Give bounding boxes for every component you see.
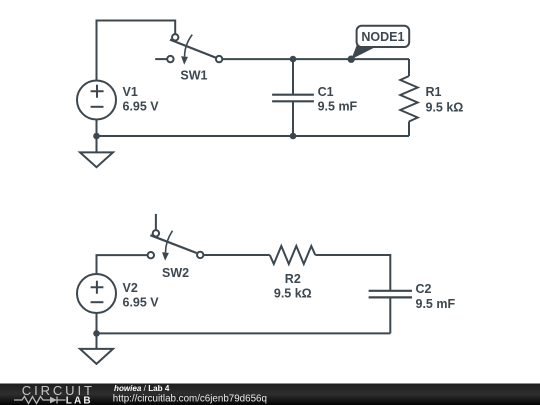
svg-text:9.5 mF: 9.5 mF [416,297,456,311]
svg-text:6.95 V: 6.95 V [123,100,160,114]
svg-text:R2: R2 [285,272,301,286]
svg-text:R1: R1 [426,85,442,99]
ground [80,152,113,167]
wire from SW2 to R2 [203,254,269,256]
label V1 value [123,85,160,114]
wire from V2 bottom to ground [96,313,98,349]
switch SW2 [148,214,204,261]
svg-text:9.5 kΩ: 9.5 kΩ [426,100,464,114]
junction dot at C1 top [290,56,297,63]
switch SW1 [155,34,222,65]
wire from V2 top to SW2 left terminal [97,255,148,274]
node NODE1 junction dot [348,56,355,63]
svg-text:NODE1: NODE1 [361,30,404,44]
label R2 value [274,272,312,301]
wire from V1 top to SW1 top terminal [97,21,176,81]
node junction at V1 bottom [93,133,100,140]
svg-text:V1: V1 [123,85,138,99]
ground [80,349,113,364]
svg-text:6.95 V: 6.95 V [123,296,160,310]
svg-text:V2: V2 [123,281,138,295]
svg-text:SW1: SW1 [180,69,207,83]
svg-text:C2: C2 [416,282,432,296]
wire top rail from SW1 to R1 [222,58,409,60]
label V2 value [123,281,160,309]
svg-text:howiea / Lab 4: howiea / Lab 4 [114,384,170,393]
svg-text:LAB: LAB [66,396,93,405]
capacitor C1 [272,59,314,136]
label C2 value [416,282,456,311]
wire from V1 bottom to ground [96,120,98,153]
junction dot at C1 bottom [290,133,297,140]
node junction at V2 bottom [93,330,100,337]
capacitor C2 [369,291,412,334]
svg-text:http://circuitlab.com/c6jenb79: http://circuitlab.com/c6jenb79d656q [113,393,267,404]
voltage source V1 [77,81,116,120]
resistor R2 [270,246,316,264]
svg-text:C1: C1 [318,85,334,99]
wire bottom rail of bottom circuit [97,332,391,334]
footer bar [0,384,540,405]
voltage source V2 [77,274,116,313]
CircuitLab logo [14,383,95,405]
resistor R1 [400,59,417,136]
svg-text:9.5 mF: 9.5 mF [318,100,358,114]
node NODE1 callout [351,26,409,59]
label C1 value [318,85,358,114]
svg-text:9.5 kΩ: 9.5 kΩ [274,287,312,301]
svg-text:SW2: SW2 [162,266,189,280]
wire bottom rail of top circuit [97,135,410,137]
wire from R2 to C2 [315,255,390,291]
label R1 value [426,85,464,115]
